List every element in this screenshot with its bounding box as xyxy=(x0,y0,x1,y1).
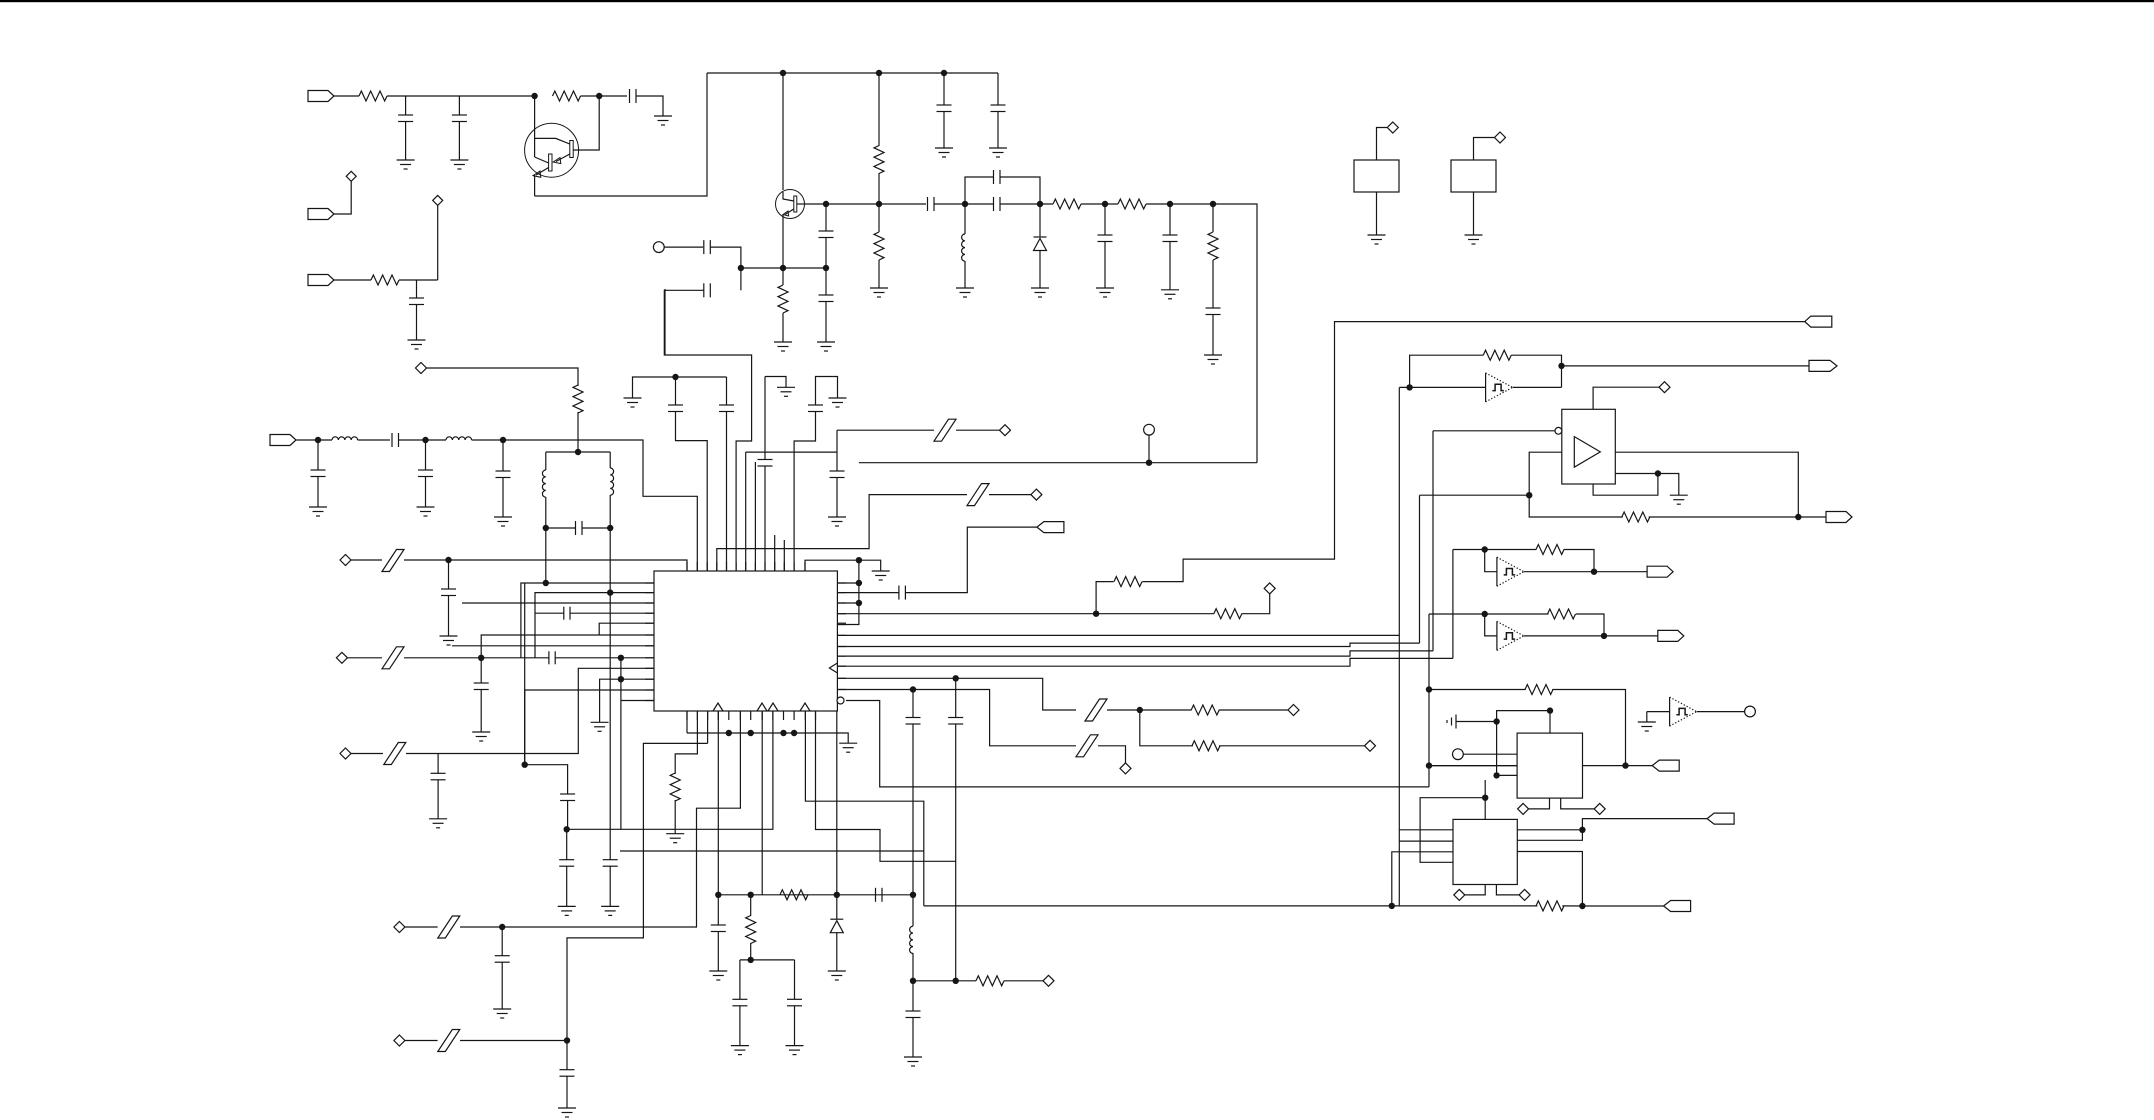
node xyxy=(499,924,505,930)
wire xyxy=(405,122,407,161)
wire riser xyxy=(620,658,622,830)
node xyxy=(1655,470,1661,476)
wire xyxy=(1392,852,1453,906)
flipflop U5 xyxy=(1453,819,1517,884)
node xyxy=(1137,707,1143,713)
capacitor C9 xyxy=(927,197,929,211)
wire xyxy=(664,290,751,571)
node xyxy=(856,557,862,563)
wire xyxy=(1453,549,1536,551)
node xyxy=(748,957,754,963)
wire xyxy=(1000,177,1040,204)
diamond net VD5 xyxy=(336,652,347,663)
wire xyxy=(480,690,482,733)
ground xyxy=(839,742,857,744)
wire xyxy=(609,495,611,528)
inductor L5 xyxy=(610,468,613,495)
connector J13 xyxy=(1664,901,1691,912)
wire xyxy=(437,754,439,774)
wire xyxy=(782,268,784,285)
node xyxy=(607,525,613,531)
capacitor C4 xyxy=(409,297,424,299)
wire xyxy=(334,95,359,97)
wire L5 xyxy=(599,623,654,635)
pin L6 xyxy=(645,634,654,636)
wire xyxy=(1549,711,1551,734)
wire xyxy=(943,112,945,149)
connector J11 xyxy=(1652,760,1679,771)
pin B3 xyxy=(707,711,709,720)
pin R6 xyxy=(837,634,846,636)
wire xyxy=(317,477,319,508)
pin T12 xyxy=(793,562,795,571)
pin R11 xyxy=(837,689,846,691)
capacitor C42 xyxy=(548,651,550,664)
diamond net VD1 xyxy=(346,171,356,181)
node xyxy=(715,892,721,898)
wire xyxy=(1096,582,1114,614)
node xyxy=(522,762,528,768)
capacitor C13 xyxy=(1163,234,1178,236)
wire xyxy=(1474,138,1495,161)
ground xyxy=(828,970,846,972)
wire xyxy=(878,204,880,232)
crystal Y2 xyxy=(1451,160,1496,192)
capacitor C44 xyxy=(948,717,963,719)
node xyxy=(445,557,451,563)
wire xyxy=(761,711,763,895)
node xyxy=(910,892,916,898)
wire xyxy=(1420,494,1530,496)
node xyxy=(1601,633,1607,639)
capacitor C25 xyxy=(808,404,823,406)
wire xyxy=(609,452,611,468)
wire xyxy=(717,895,719,925)
ground xyxy=(601,905,619,907)
wire xyxy=(1576,614,1604,636)
wire vpin xyxy=(1593,474,1658,496)
wire xyxy=(1148,435,1150,463)
node xyxy=(1558,363,1564,369)
wire xyxy=(837,678,1076,710)
wire bus right xyxy=(837,560,859,624)
wire xyxy=(480,658,482,683)
node xyxy=(1406,384,1412,390)
capacitor C35 xyxy=(711,924,726,926)
capacitor C30 xyxy=(559,859,574,861)
diamond net VD15 xyxy=(1518,803,1529,814)
wire xyxy=(502,478,504,518)
wire xyxy=(740,268,742,290)
wire xyxy=(739,960,741,999)
wire xyxy=(1000,203,1053,205)
node xyxy=(1547,707,1553,713)
capacitor C31 xyxy=(603,859,618,861)
ground xyxy=(1638,721,1656,723)
pin T13 xyxy=(804,562,806,571)
wire xyxy=(1561,366,1563,388)
connector J4 xyxy=(270,435,296,446)
node xyxy=(748,730,754,736)
wire xyxy=(502,440,504,471)
node xyxy=(1426,762,1432,768)
wire xyxy=(825,238,827,269)
wire xyxy=(437,205,439,280)
ground xyxy=(1670,494,1688,496)
wire xyxy=(782,73,784,190)
wire L12 xyxy=(621,700,654,702)
resistor R19 xyxy=(1483,350,1511,360)
ground xyxy=(777,386,795,388)
wire L3 xyxy=(462,602,654,604)
wire xyxy=(448,596,450,637)
node xyxy=(1167,201,1173,207)
pin T8 xyxy=(754,562,756,571)
wire xyxy=(794,960,796,999)
wire gnd bus xyxy=(687,733,848,743)
wire xyxy=(782,313,784,342)
capacitor C18 xyxy=(391,433,393,447)
wire L7 xyxy=(452,645,654,647)
wire T8 xyxy=(754,462,756,571)
wire xyxy=(545,497,547,528)
wire stack2 xyxy=(837,643,1419,646)
node xyxy=(618,655,624,661)
node xyxy=(478,655,484,661)
wire xyxy=(460,1040,567,1042)
capacitor C36 xyxy=(732,998,747,1000)
resistor R20 xyxy=(1622,512,1650,522)
capacitor C21 xyxy=(575,521,577,535)
wire xyxy=(581,95,600,97)
pin L10 xyxy=(645,678,654,680)
wire xyxy=(965,177,993,204)
ground xyxy=(872,570,890,572)
wire riser xyxy=(955,678,957,717)
wire xyxy=(912,895,914,926)
pin T1 xyxy=(686,562,688,571)
wire xyxy=(997,112,999,149)
ground xyxy=(397,159,415,161)
wire xyxy=(805,711,923,906)
wire xyxy=(501,927,503,956)
wire tank bottom xyxy=(546,527,575,529)
pin L8 xyxy=(645,657,654,659)
transistor Q2 xyxy=(776,190,805,219)
pin R2 xyxy=(837,592,846,594)
resistor R18 xyxy=(1192,741,1220,751)
buffer U2D xyxy=(1669,697,1671,726)
wire xyxy=(934,203,993,205)
pin R7 xyxy=(837,646,846,648)
wire xyxy=(675,711,697,774)
wire xyxy=(387,95,535,97)
diode D2 xyxy=(830,918,843,920)
wire xyxy=(836,430,838,471)
wire xyxy=(425,440,427,470)
resistor R10 xyxy=(573,385,583,413)
wire xyxy=(717,932,719,972)
wire xyxy=(1169,242,1171,290)
node xyxy=(1210,201,1216,207)
wire xyxy=(1169,204,1171,235)
pin T6 xyxy=(735,562,737,571)
wire xyxy=(1497,774,1518,776)
wire xyxy=(1511,355,1561,366)
ferrite FB3 xyxy=(384,743,406,765)
capacitor C43 xyxy=(906,717,921,719)
wire tank gnd xyxy=(609,593,611,860)
wire xyxy=(351,559,382,561)
wire xyxy=(358,439,390,441)
wire xyxy=(296,439,332,441)
wire xyxy=(405,1040,438,1042)
ground xyxy=(828,516,846,518)
pin T4 xyxy=(716,562,718,571)
connector J5 xyxy=(1037,522,1064,533)
connector J1 xyxy=(308,91,334,102)
capacitor C22 xyxy=(668,404,683,406)
wire xyxy=(1146,204,1257,463)
wire xyxy=(1517,830,1582,841)
pin L5 xyxy=(645,622,654,624)
wire tank top xyxy=(546,451,610,453)
pin B4 xyxy=(717,711,719,720)
wire xyxy=(837,592,898,594)
ferrite FB9 xyxy=(967,484,989,506)
node xyxy=(1426,686,1432,692)
ground xyxy=(666,833,684,835)
inductor L4 xyxy=(542,470,545,497)
node xyxy=(1493,772,1499,778)
wire xyxy=(686,711,688,733)
wire xyxy=(404,560,687,571)
resistor R24 xyxy=(1536,901,1564,911)
capacitor C38 xyxy=(906,1010,921,1012)
wire xyxy=(750,943,752,960)
resistor R4 xyxy=(874,146,884,174)
node xyxy=(1102,201,1108,207)
wire xyxy=(906,527,1037,593)
wire bubble net xyxy=(846,701,1429,787)
wire L8 xyxy=(555,657,654,659)
wire row2 xyxy=(805,203,927,205)
ground xyxy=(786,1045,804,1047)
inductor L2 xyxy=(332,437,358,440)
wire xyxy=(1212,204,1214,232)
wire pin7 riser xyxy=(764,377,766,460)
wire xyxy=(633,377,676,398)
wire xyxy=(1456,721,1497,723)
wire xyxy=(427,368,579,386)
wire xyxy=(664,289,666,355)
diamond net VD2 xyxy=(433,195,443,205)
wire xyxy=(726,377,728,405)
wire xyxy=(997,73,999,105)
pin T10 xyxy=(774,562,776,571)
node xyxy=(618,676,624,682)
node xyxy=(564,1037,570,1043)
wire xyxy=(566,1076,568,1108)
wire xyxy=(567,801,569,830)
wire xyxy=(1039,204,1041,237)
node A xyxy=(531,93,537,99)
wire xyxy=(1562,905,1663,907)
wire xyxy=(1399,829,1453,831)
wire xyxy=(746,451,837,453)
wire xyxy=(1582,819,1707,830)
node xyxy=(823,201,829,207)
capacitor C12 xyxy=(1098,234,1113,236)
capacitor C16 xyxy=(703,283,705,297)
clk mark xyxy=(829,663,837,673)
inductor L1 xyxy=(962,234,965,261)
wire riser E xyxy=(1432,431,1434,651)
pin B1 xyxy=(686,711,688,720)
wire xyxy=(1562,365,1810,367)
pin L11 xyxy=(645,689,654,691)
wire xyxy=(717,495,967,571)
wire xyxy=(1376,192,1378,235)
resistor R15 xyxy=(1114,577,1142,587)
node xyxy=(856,580,862,586)
capacitor C41 xyxy=(563,607,565,620)
connector J12 xyxy=(1707,813,1734,824)
resistor R17 xyxy=(1191,705,1219,715)
wire riser xyxy=(912,690,914,718)
capacitor C5 xyxy=(937,104,952,106)
wire xyxy=(1098,746,1126,763)
capacitor C6 xyxy=(991,104,1006,106)
wire riser C xyxy=(1419,495,1421,643)
wire xyxy=(1399,386,1485,388)
node xyxy=(1493,718,1499,724)
ground xyxy=(450,159,468,161)
node xyxy=(1795,514,1801,520)
terminal TP2 xyxy=(1745,706,1756,717)
pin B8 xyxy=(761,711,763,720)
wire xyxy=(837,690,1076,746)
inductor L6 xyxy=(910,926,913,953)
ground xyxy=(472,731,490,733)
node xyxy=(856,600,862,606)
node xyxy=(1482,546,1488,552)
wire riser A xyxy=(1398,387,1400,906)
capacitor C15 xyxy=(703,240,705,254)
wire xyxy=(825,204,827,231)
wire xyxy=(405,926,438,928)
capacitor C8 xyxy=(819,294,834,296)
wire xyxy=(675,377,677,405)
wire xyxy=(404,657,481,659)
wire pin12 riser xyxy=(794,412,815,572)
wire xyxy=(989,494,1031,496)
capacitor C19 xyxy=(418,469,433,471)
buffer U2C xyxy=(1496,621,1498,650)
wire xyxy=(1104,242,1106,289)
wire xyxy=(566,1041,568,1070)
wire xyxy=(1697,711,1745,713)
pin B12 xyxy=(804,711,806,720)
pin T5 xyxy=(726,562,728,571)
wire xyxy=(1140,709,1192,711)
wire xyxy=(501,962,503,1009)
pin L3 xyxy=(645,602,654,604)
pin B7 xyxy=(750,711,752,720)
wire xyxy=(1429,613,1549,615)
wire xyxy=(956,980,976,982)
clk mark xyxy=(800,703,810,711)
wire xyxy=(717,711,719,895)
resistor R11 xyxy=(670,773,680,801)
inv bubble xyxy=(837,697,844,704)
wire xyxy=(739,1006,741,1046)
transistor Q1 xyxy=(525,123,579,177)
pin R4 xyxy=(837,613,846,615)
ground xyxy=(829,397,847,399)
wire QA stub xyxy=(1429,765,1517,767)
wire out xyxy=(1615,452,1798,517)
node xyxy=(748,892,754,898)
wire xyxy=(816,377,838,406)
ground xyxy=(709,970,727,972)
pin B10 xyxy=(783,711,785,720)
wire stack4 xyxy=(837,658,1453,666)
ground xyxy=(493,1008,511,1010)
capacitor C40 xyxy=(830,470,845,472)
wire stack1 xyxy=(837,634,1399,636)
resistor R12 xyxy=(780,890,808,900)
wire xyxy=(1484,780,1486,819)
wire xyxy=(405,96,407,115)
capacitor C27 xyxy=(474,682,489,684)
wire xyxy=(943,73,945,105)
inductor L3 xyxy=(446,437,472,440)
ground xyxy=(956,287,974,289)
wire xyxy=(794,1006,796,1046)
IC U1 xyxy=(654,571,837,711)
resistor R13 xyxy=(746,916,756,944)
node xyxy=(910,686,916,692)
node xyxy=(543,525,549,531)
wire stack3 xyxy=(837,651,1433,656)
connector J9 xyxy=(1647,566,1673,577)
clk mark xyxy=(768,703,778,711)
wire fbA xyxy=(1429,689,1526,691)
ground xyxy=(558,905,576,907)
wire xyxy=(726,412,728,572)
wire xyxy=(577,412,579,452)
wire xyxy=(1081,203,1118,205)
wire xyxy=(1593,387,1659,409)
wire L4 xyxy=(571,612,655,614)
ground xyxy=(774,341,792,343)
wire xyxy=(837,622,846,624)
wire xyxy=(1039,251,1041,289)
wire xyxy=(1219,709,1288,711)
capacitor C29 xyxy=(560,793,575,795)
connector J3 xyxy=(308,275,334,286)
capacitor C7 xyxy=(819,230,834,232)
wire xyxy=(674,800,676,834)
node xyxy=(876,201,882,207)
diamond net VD3 xyxy=(416,363,427,374)
wire xyxy=(481,657,549,659)
wire xyxy=(351,753,383,755)
wire fb1 xyxy=(1410,355,1484,387)
wire xyxy=(1399,840,1453,842)
resistor R14 xyxy=(976,976,1004,986)
